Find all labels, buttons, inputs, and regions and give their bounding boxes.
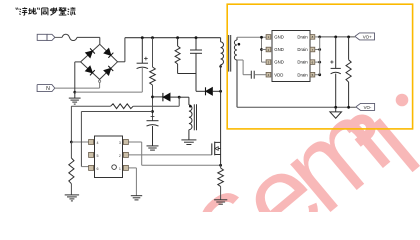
svg-text:N: N xyxy=(46,86,50,92)
svg-text:VO-: VO- xyxy=(364,105,372,110)
svg-text:2: 2 xyxy=(119,154,121,158)
svg-text:1: 1 xyxy=(119,167,121,171)
svg-text:6: 6 xyxy=(97,167,99,171)
svg-text:Drain: Drain xyxy=(297,60,308,65)
svg-text:Drain: Drain xyxy=(297,47,308,52)
svg-text:Drain: Drain xyxy=(297,35,308,40)
svg-text:GND: GND xyxy=(274,35,284,40)
svg-text:GND: GND xyxy=(274,60,284,65)
svg-text:VDD: VDD xyxy=(274,72,283,77)
svg-text:4: 4 xyxy=(97,141,99,145)
svg-text:3: 3 xyxy=(119,141,121,145)
svg-text:5: 5 xyxy=(97,154,99,158)
svg-text:GND: GND xyxy=(274,47,284,52)
svg-text:VO+: VO+ xyxy=(363,34,372,39)
svg-text:Drain: Drain xyxy=(297,72,308,77)
